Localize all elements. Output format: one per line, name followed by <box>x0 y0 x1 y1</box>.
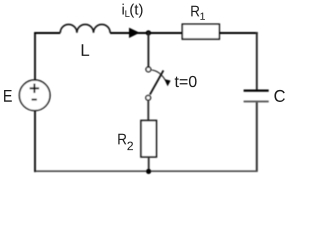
label (t) of iL(t) <box>130 4 142 18</box>
wire: right vertical down to capacitor <box>256 32 258 90</box>
label subscript 2 of R2 <box>127 142 133 151</box>
switch motion arc <box>152 70 166 80</box>
wire: node A down to switch <box>147 32 149 67</box>
resistor R1 <box>182 24 219 39</box>
label subscript 1 of R1 <box>200 13 205 20</box>
voltage source E circle <box>19 80 50 111</box>
wire: top rail, corner to inductor <box>34 32 60 34</box>
label subscript L of iL(t) <box>125 10 129 17</box>
capacitor C top plate <box>244 89 269 91</box>
wire: left vertical, source E down to bottom-left corner <box>34 111 36 173</box>
node A junction dot <box>146 30 151 35</box>
label C capacitor <box>274 90 284 102</box>
label R of R2 <box>118 134 126 145</box>
wire: bottom rail <box>34 170 258 172</box>
label E source <box>4 90 12 102</box>
switch motion arrowhead <box>164 79 170 86</box>
wire: capacitor to bottom-right corner <box>256 102 258 171</box>
wire: switch to R2 <box>147 100 149 120</box>
circuit schematic: E source, L, R1, R2, C with switch t=0 <box>0 0 288 175</box>
wire: node A to R1 <box>148 32 182 34</box>
voltage source minus sign <box>32 99 37 101</box>
wire: inductor to node A <box>110 32 148 34</box>
switch blade <box>150 70 164 94</box>
label L value <box>82 44 89 56</box>
label R of R1 <box>191 6 199 17</box>
inductor L <box>60 24 110 32</box>
wire: R1 to top-right corner <box>219 32 257 34</box>
bottom junction dot <box>146 169 151 174</box>
switch bottom contact circle <box>146 95 151 100</box>
voltage source plus sign <box>30 84 39 93</box>
wire: left vertical, top-left corner up from source E <box>34 33 36 80</box>
resistor R2 <box>141 121 156 157</box>
label iL of iL(t) <box>123 4 124 15</box>
label t=0 switch time <box>175 76 197 87</box>
current arrow for iL(t) <box>129 28 140 38</box>
wire: R2 to bottom junction <box>148 157 150 171</box>
switch top contact circle <box>146 67 151 72</box>
capacitor C bottom plate <box>244 101 269 103</box>
